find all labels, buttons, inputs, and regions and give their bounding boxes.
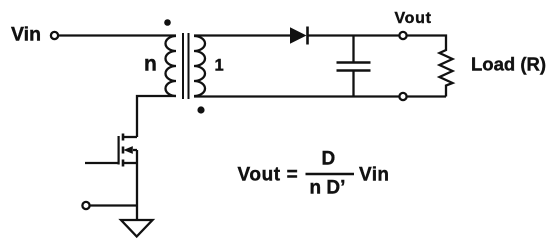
transistor Q1 N-MOSFET [119,134,137,167]
svg-text:1: 1 [215,57,224,75]
wire MOSFET source to ground [136,150,138,220]
diode D1 [290,27,308,45]
wire gate lead [85,162,119,164]
phase dot primary (top) [164,19,171,26]
wire primary bottom to MOSFET drain [137,96,176,137]
bottom-right terminal (open circle) [399,93,406,100]
svg-text:Vout =: Vout = [238,165,299,186]
formula Vout = D/(n D') Vin [238,148,390,198]
wire bottom rail secondary to load [194,95,399,97]
svg-text:D: D [322,148,336,169]
wire Vout terminal to load top [407,36,446,49]
svg-text:Vin: Vin [359,165,389,186]
Vout terminal (open circle) [399,32,406,39]
wire Vin terminal to transformer primary top [58,34,176,36]
transformer T1 primary winding (n) [166,36,176,96]
bottom-left terminal (open circle) [82,202,89,209]
capacitor C1 [337,36,371,97]
ground [121,220,153,237]
svg-text:n D’: n D’ [310,177,346,198]
svg-text:n: n [144,53,157,76]
transformer T1 secondary winding (1) [194,36,205,96]
input terminal (open circle) [51,32,58,39]
transformer T1 core [183,33,189,99]
svg-text:Vout: Vout [395,10,432,27]
wire secondary top to diode [194,34,290,36]
wire terminal to source node [90,204,137,206]
svg-text:Vin: Vin [11,24,41,46]
svg-text:Load (R): Load (R) [471,53,546,74]
resistor Load (R) [440,48,453,97]
phase dot secondary (bottom) [197,106,204,113]
wire terminal to load bottom [407,95,446,97]
wire diode to Vout terminal [308,34,400,36]
